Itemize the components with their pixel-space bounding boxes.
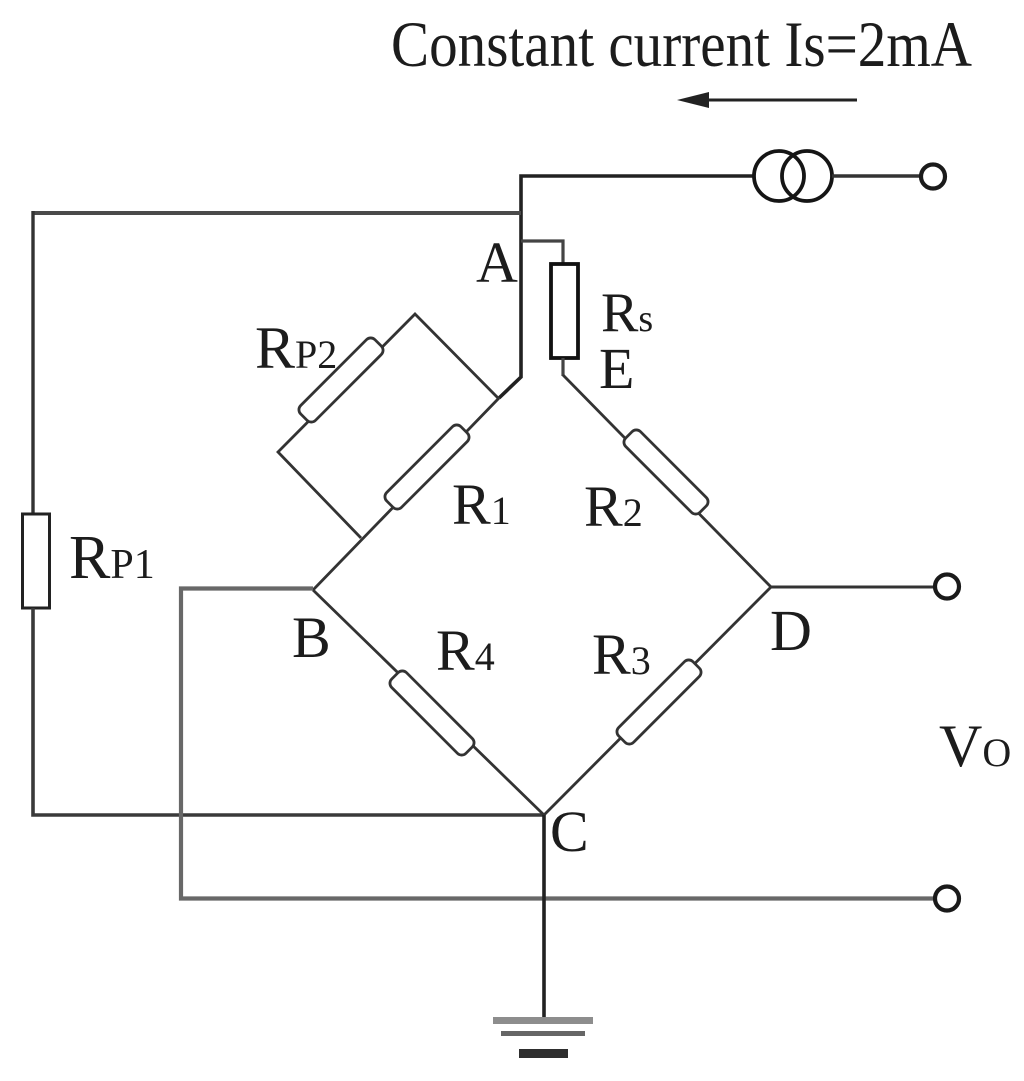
svg-text:A: A: [476, 230, 518, 295]
wire: RP2 parallel branch: [278, 314, 499, 538]
resistor R4: [387, 668, 476, 757]
terminal (lower output, open circle): [935, 887, 959, 911]
wire stub: Rs bottom to node E: [561, 358, 564, 376]
current direction arrow: [677, 92, 857, 108]
wire: current source to right terminal: [832, 174, 921, 177]
terminal (upper output, open circle): [935, 575, 959, 599]
svg-text:B: B: [292, 605, 331, 670]
wire: node B loop to lower output terminal: [181, 589, 935, 899]
wire: RP1 down and along bottom to node C: [33, 608, 544, 815]
resistor R3: [614, 657, 703, 746]
wire: node C to ground: [542, 815, 546, 1020]
wire: bridge edge E to D (through R2): [563, 375, 771, 587]
wire: top node A to current source: [499, 176, 754, 398]
svg-text:C: C: [550, 799, 589, 864]
resistor Rs: [551, 264, 578, 358]
svg-text:E: E: [599, 336, 634, 401]
wire stub: node A to Rs top: [521, 241, 563, 266]
ground symbol: [493, 1017, 593, 1058]
wire: node A to top-left corner (horizontal): [33, 211, 521, 215]
wire: bridge edge B to C (through R4): [313, 590, 544, 815]
resistor RP1: [23, 514, 50, 608]
current source Is (two overlapping circles): [754, 151, 832, 201]
svg-text:Constant current Is=2mA: Constant current Is=2mA: [391, 9, 972, 81]
svg-text:D: D: [770, 598, 812, 663]
resistor R2: [621, 427, 710, 516]
wire: node D to upper output terminal: [771, 586, 935, 589]
terminal (top right, open circle): [921, 165, 945, 189]
wire: bridge edge A to B (through R1): [313, 398, 499, 590]
resistor RP2: [296, 335, 385, 424]
wire: bridge edge C to D (through R3): [544, 587, 771, 815]
wire: left vertical down to RP1: [31, 211, 34, 516]
resistor R1: [382, 422, 471, 511]
